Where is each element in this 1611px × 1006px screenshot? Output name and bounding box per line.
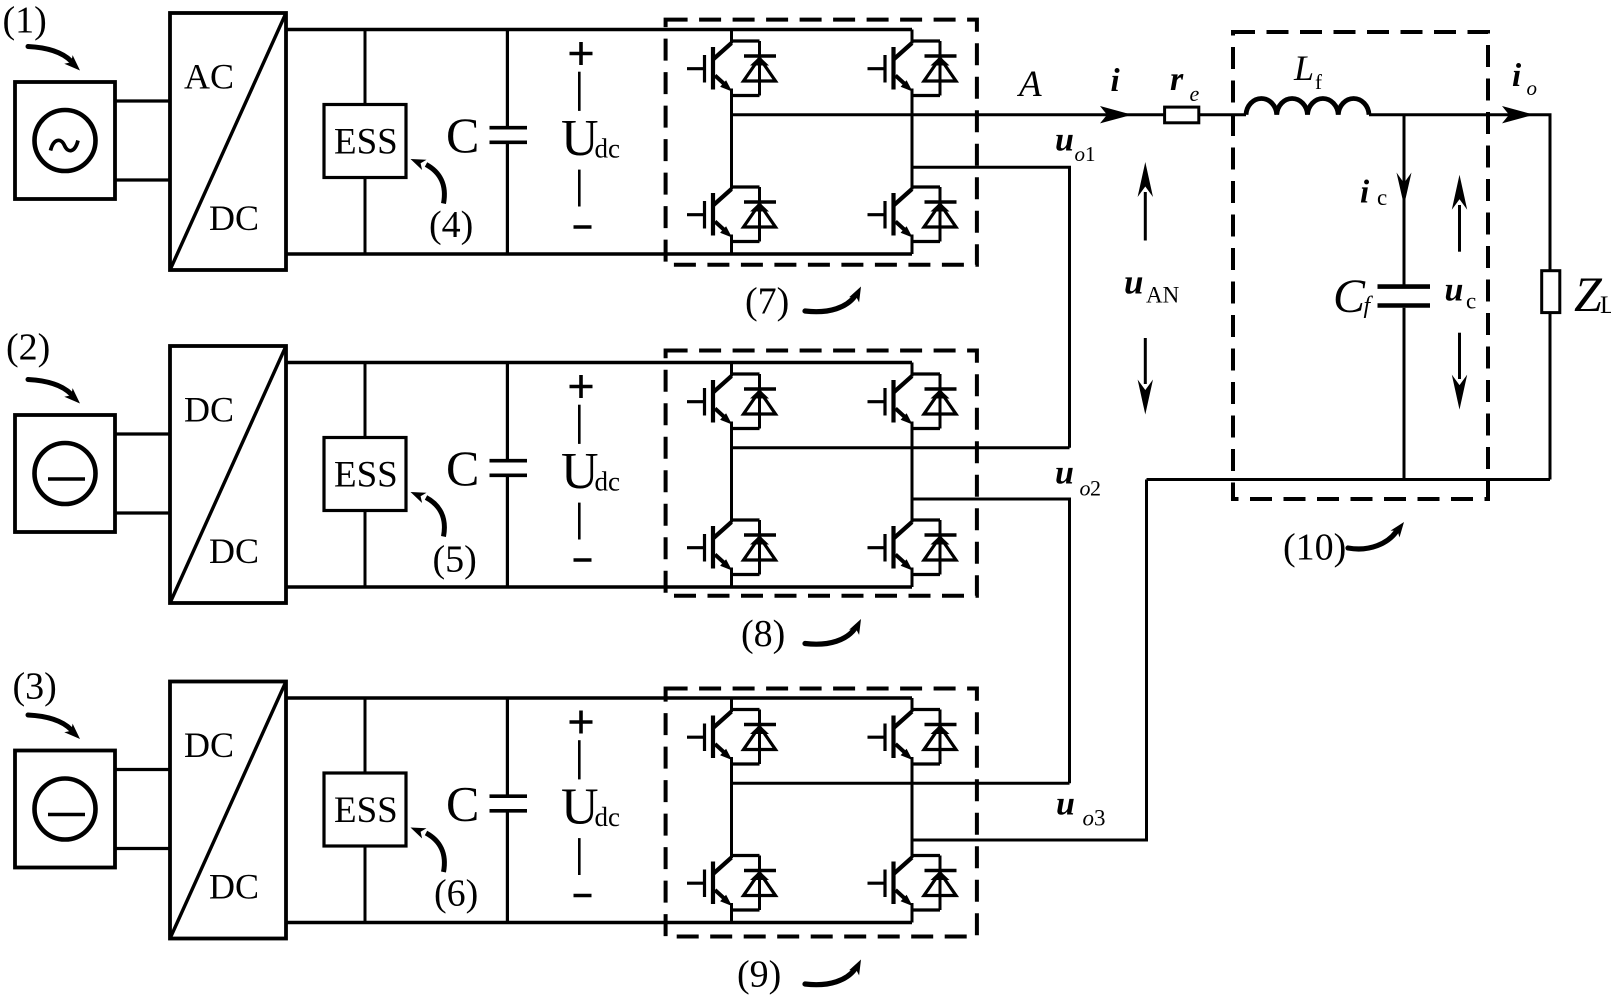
inductor L_f bbox=[1246, 98, 1369, 114]
IGBT transistor bottom-right bridge 2 bbox=[868, 522, 913, 571]
svg-text:i: i bbox=[1512, 58, 1522, 94]
AC source G1 box bbox=[15, 82, 115, 199]
wire mid rail bridge 2 bbox=[732, 446, 1070, 449]
svg-text:C: C bbox=[446, 776, 479, 832]
svg-text:c: c bbox=[1377, 185, 1387, 210]
IGBT transistor top-right bridge 3 bbox=[868, 712, 913, 761]
H-bridge (7) dashed box bbox=[666, 20, 977, 265]
wire right leg emitter stub bbox=[911, 903, 914, 923]
wire u_o1 link bridge1 to bridge2 bbox=[912, 167, 1070, 448]
freewheel diode top-right bridge 3 bbox=[912, 710, 957, 765]
arrow from (10) to filter box bbox=[1348, 532, 1396, 549]
converter U3 box bbox=[170, 682, 286, 939]
arrow from (9) to bridge bbox=[805, 969, 855, 985]
svg-text:o: o bbox=[1075, 142, 1086, 166]
current arrow i bbox=[1100, 106, 1132, 123]
IGBT transistor top-left bridge 2 bbox=[687, 376, 732, 425]
freewheel diode top-right bridge 2 bbox=[912, 374, 957, 429]
wire node A output of bridge 1 bbox=[732, 113, 1166, 116]
capacitor C row 3 plates bbox=[490, 796, 528, 811]
plus sign bbox=[570, 375, 593, 398]
svg-text:(4): (4) bbox=[429, 204, 473, 246]
label u_o3 bbox=[1056, 786, 1106, 831]
DC source G3 circle bbox=[35, 779, 96, 840]
plus sign bbox=[570, 711, 593, 734]
wire left leg collector stub bbox=[730, 30, 733, 44]
wire right leg middle bbox=[911, 757, 914, 858]
freewheel diode top-left bridge 3 bbox=[732, 710, 777, 765]
svg-text:u: u bbox=[1124, 263, 1143, 302]
wire left leg emitter stub bbox=[730, 235, 733, 255]
IGBT transistor top-left bridge 3 bbox=[687, 712, 732, 761]
label u_o1 bbox=[1055, 122, 1096, 167]
wire ESS stub bottom bbox=[364, 178, 367, 255]
Udc annotation line lower bbox=[578, 838, 581, 875]
IGBT transistor bottom-left bridge 3 bbox=[687, 858, 732, 907]
IGBT transistor bottom-left bridge 2 bbox=[687, 522, 732, 571]
freewheel diode bottom-left bridge 2 bbox=[732, 520, 777, 575]
wire ESS stub top bbox=[364, 698, 367, 773]
IGBT transistor top-left bridge 1 bbox=[687, 43, 732, 92]
Udc annotation line lower bbox=[578, 170, 581, 207]
wire left leg collector stub bbox=[730, 363, 733, 377]
svg-text:i: i bbox=[1360, 175, 1370, 211]
label Udc row 3 bbox=[561, 779, 620, 836]
u_AN arrow up bbox=[1138, 162, 1153, 241]
freewheel diode bottom-right bridge 1 bbox=[912, 187, 957, 242]
dashed box (10) output filter bbox=[1233, 32, 1488, 499]
current arrow i_o bbox=[1502, 106, 1534, 123]
svg-text:C: C bbox=[446, 107, 479, 163]
minus sign bbox=[574, 225, 592, 229]
svg-text:(10): (10) bbox=[1283, 527, 1346, 569]
label r_e bbox=[1170, 61, 1200, 106]
Udc annotation line upper bbox=[578, 72, 581, 111]
svg-text:(7): (7) bbox=[745, 281, 789, 323]
DC source minus symbol bbox=[48, 813, 85, 817]
load Z_L box bbox=[1542, 271, 1560, 313]
ESS box (5) bbox=[324, 438, 406, 511]
arrow from (5) to ESS bbox=[426, 498, 444, 537]
wire right leg collector stub bbox=[911, 698, 914, 712]
converter U2 box bbox=[170, 346, 286, 603]
capacitor C row 1 wire top bbox=[506, 30, 509, 127]
svg-text:1: 1 bbox=[1085, 142, 1096, 166]
wire resistor to inductor bbox=[1199, 113, 1246, 116]
capacitor C row 2 wire top bbox=[506, 363, 509, 460]
wire u_o3 to node N bbox=[912, 480, 1147, 841]
arrow from (8) to bridge bbox=[805, 629, 855, 645]
freewheel diode bottom-left bridge 3 bbox=[732, 856, 777, 911]
arrow from (1) to source bbox=[28, 47, 71, 62]
filter capacitor C_f plates bbox=[1378, 287, 1431, 306]
wire right leg emitter stub bbox=[911, 568, 914, 588]
IGBT transistor bottom-right bridge 3 bbox=[868, 858, 913, 907]
svg-text:o: o bbox=[1080, 476, 1091, 501]
wire load to bottom rail bbox=[1549, 313, 1552, 480]
svg-text:(1): (1) bbox=[3, 0, 47, 41]
wire right leg emitter stub bbox=[911, 235, 914, 255]
svg-text:r: r bbox=[1170, 61, 1184, 98]
Udc annotation line upper bbox=[578, 740, 581, 779]
svg-text:L: L bbox=[1600, 292, 1611, 319]
freewheel diode top-left bridge 1 bbox=[732, 41, 777, 96]
svg-text:o: o bbox=[1083, 806, 1095, 831]
wire mid rail bridge 3 bbox=[732, 782, 1070, 785]
capacitor C row 1 plates bbox=[490, 128, 528, 143]
wire filter capacitor bottom bbox=[1403, 308, 1406, 480]
converter U1 diagonal bbox=[170, 13, 286, 270]
wire source to converter lower bbox=[115, 178, 170, 181]
wire left leg collector stub bbox=[730, 698, 733, 712]
plus sign bbox=[570, 42, 593, 65]
Udc annotation line upper bbox=[578, 405, 581, 444]
svg-text:(8): (8) bbox=[741, 613, 785, 655]
arrow from (7) to bridge bbox=[805, 296, 855, 312]
resistor r_e bbox=[1165, 107, 1199, 123]
minus sign bbox=[574, 894, 592, 898]
wire DC bus bottom row 2 bbox=[286, 585, 912, 588]
svg-text:(6): (6) bbox=[434, 873, 478, 915]
u_c arrow up bbox=[1452, 175, 1467, 252]
svg-text:(5): (5) bbox=[433, 539, 477, 581]
svg-text:(9): (9) bbox=[737, 954, 781, 996]
wire right leg collector stub bbox=[911, 363, 914, 377]
wire source to converter upper bbox=[115, 768, 170, 771]
capacitor C row 3 wire bottom bbox=[506, 812, 509, 922]
freewheel diode bottom-left bridge 1 bbox=[732, 187, 777, 242]
u_c arrow down bbox=[1452, 333, 1467, 410]
svg-text:ESS: ESS bbox=[334, 790, 398, 831]
svg-text:ESS: ESS bbox=[334, 455, 398, 496]
IGBT transistor bottom-left bridge 1 bbox=[687, 189, 732, 238]
svg-text:u: u bbox=[1055, 122, 1074, 159]
svg-text:u: u bbox=[1445, 272, 1464, 309]
DC source G3 box bbox=[15, 751, 115, 868]
label u_o2 bbox=[1055, 455, 1101, 501]
svg-text:e: e bbox=[1190, 81, 1200, 106]
capacitor C row 3 wire top bbox=[506, 698, 509, 795]
ESS box (4) bbox=[324, 105, 406, 178]
wire u_o2 link bridge2 to bridge3 bbox=[912, 499, 1070, 783]
freewheel diode bottom-right bridge 2 bbox=[912, 520, 957, 575]
svg-text:(2): (2) bbox=[6, 326, 50, 368]
svg-text:DC: DC bbox=[209, 867, 259, 907]
AC source sine symbol bbox=[51, 140, 79, 150]
label u_AN bbox=[1124, 263, 1180, 308]
H-bridge (9) dashed box bbox=[666, 689, 977, 937]
minus sign bbox=[574, 558, 592, 562]
u_AN arrow down bbox=[1138, 338, 1153, 415]
svg-text:f: f bbox=[1315, 70, 1322, 94]
svg-text:A: A bbox=[1016, 64, 1042, 105]
capacitor C row 2 wire bottom bbox=[506, 477, 509, 587]
AC source G1 circle bbox=[35, 110, 96, 171]
capacitor C row 2 plates bbox=[490, 461, 528, 476]
wire right leg middle bbox=[911, 422, 914, 523]
converter U3 diagonal bbox=[170, 682, 286, 939]
freewheel diode bottom-right bridge 3 bbox=[912, 856, 957, 911]
IGBT transistor top-right bridge 1 bbox=[868, 43, 913, 92]
svg-text:u: u bbox=[1055, 455, 1074, 492]
arrow from (2) to source bbox=[28, 380, 71, 395]
wire source to converter lower bbox=[115, 511, 170, 514]
IGBT transistor top-right bridge 2 bbox=[868, 376, 913, 425]
wire source to converter upper bbox=[115, 432, 170, 435]
Udc annotation line lower bbox=[578, 503, 581, 540]
label i_c bbox=[1360, 175, 1387, 211]
svg-text:DC: DC bbox=[209, 198, 259, 238]
wire ESS stub bottom bbox=[364, 846, 367, 923]
H-bridge (8) dashed box bbox=[666, 351, 977, 596]
converter U2 diagonal bbox=[170, 346, 286, 603]
svg-text:AC: AC bbox=[184, 57, 234, 97]
wire bottom rail node N bbox=[1147, 478, 1551, 481]
label L_f bbox=[1293, 48, 1322, 94]
arrow from (4) to ESS bbox=[426, 165, 444, 204]
DC source G2 box bbox=[15, 415, 115, 532]
arrow from (6) to ESS bbox=[426, 833, 444, 872]
freewheel diode top-right bridge 1 bbox=[912, 41, 957, 96]
wire DC bus bottom row 1 bbox=[286, 252, 912, 255]
label Udc row 1 bbox=[561, 110, 620, 167]
IGBT transistor bottom-right bridge 1 bbox=[868, 189, 913, 238]
svg-text:(3): (3) bbox=[13, 665, 57, 707]
svg-text:i: i bbox=[1111, 63, 1121, 99]
wire left leg middle bbox=[730, 757, 733, 858]
svg-text:U: U bbox=[561, 779, 599, 836]
wire ESS stub top bbox=[364, 30, 367, 105]
wire DC bus top row 2 bbox=[286, 361, 912, 364]
DC source minus symbol bbox=[48, 477, 85, 481]
capacitor C row 1 wire bottom bbox=[506, 144, 509, 254]
converter U1 box bbox=[170, 13, 286, 270]
label u_c bbox=[1445, 272, 1477, 314]
svg-text:dc: dc bbox=[595, 467, 621, 497]
svg-text:C: C bbox=[1333, 270, 1366, 323]
svg-text:L: L bbox=[1293, 48, 1314, 88]
svg-text:dc: dc bbox=[595, 134, 621, 164]
svg-text:DC: DC bbox=[184, 725, 234, 765]
svg-text:U: U bbox=[561, 110, 599, 167]
current arrow i_c bbox=[1397, 173, 1412, 206]
wire DC bus bottom row 3 bbox=[286, 921, 912, 924]
wire left leg middle bbox=[730, 89, 733, 190]
arrow from (3) to source bbox=[28, 715, 71, 730]
wire ESS stub bottom bbox=[364, 511, 367, 588]
label Z_L bbox=[1574, 266, 1611, 322]
ESS box (6) bbox=[324, 773, 406, 846]
wire right leg collector stub bbox=[911, 30, 914, 44]
svg-text:ESS: ESS bbox=[334, 122, 398, 163]
wire right leg middle bbox=[911, 89, 914, 190]
svg-text:o: o bbox=[1527, 76, 1538, 100]
svg-text:3: 3 bbox=[1094, 806, 1106, 831]
label C_f bbox=[1333, 270, 1374, 323]
svg-text:u: u bbox=[1056, 786, 1075, 823]
wire filter capacitor top bbox=[1403, 115, 1406, 285]
svg-text:dc: dc bbox=[595, 802, 621, 832]
label Udc row 2 bbox=[561, 443, 620, 500]
wire source to converter upper bbox=[115, 99, 170, 102]
svg-text:DC: DC bbox=[209, 531, 259, 571]
wire left leg emitter stub bbox=[730, 903, 733, 923]
svg-text:c: c bbox=[1466, 289, 1476, 314]
svg-text:AN: AN bbox=[1146, 283, 1180, 308]
freewheel diode top-left bridge 2 bbox=[732, 374, 777, 429]
svg-text:C: C bbox=[446, 440, 479, 496]
wire DC bus top row 3 bbox=[286, 696, 912, 699]
wire ESS stub top bbox=[364, 363, 367, 438]
wire DC bus top row 1 bbox=[286, 28, 912, 31]
svg-text:Z: Z bbox=[1574, 266, 1603, 322]
wire left leg emitter stub bbox=[730, 568, 733, 588]
svg-text:U: U bbox=[561, 443, 599, 500]
wire inductor to load corner bbox=[1369, 115, 1550, 271]
label i_o bbox=[1512, 58, 1537, 100]
wire left leg middle bbox=[730, 422, 733, 523]
wire source to converter lower bbox=[115, 847, 170, 850]
svg-text:2: 2 bbox=[1090, 476, 1101, 501]
DC source G2 circle bbox=[35, 443, 96, 504]
svg-text:DC: DC bbox=[184, 390, 234, 430]
